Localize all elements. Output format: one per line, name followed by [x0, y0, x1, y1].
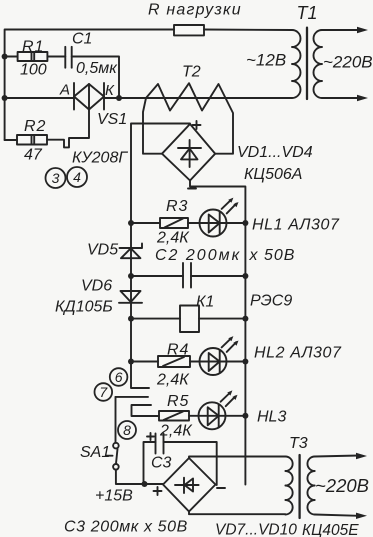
svg-text:2,4К: 2,4К: [156, 230, 190, 247]
svg-text:4: 4: [73, 169, 81, 185]
svg-text:47: 47: [24, 147, 43, 164]
svg-text:КУ208Г: КУ208Г: [72, 150, 128, 167]
svg-text:С2 200мк: С2 200мк: [155, 247, 241, 264]
svg-text:РЭС9: РЭС9: [250, 293, 292, 310]
svg-text:HL1 АЛ307: HL1 АЛ307: [252, 217, 340, 234]
svg-text:HL3: HL3: [257, 409, 286, 426]
svg-text:Т3: Т3: [289, 435, 308, 452]
svg-text:100: 100: [20, 62, 47, 79]
svg-text:R2: R2: [24, 118, 46, 135]
svg-text:R5: R5: [167, 393, 189, 410]
svg-text:А: А: [59, 82, 70, 99]
svg-text:3: 3: [52, 170, 60, 186]
svg-text:К: К: [105, 82, 115, 99]
svg-text:+15В: +15В: [95, 488, 133, 505]
svg-text:VS1: VS1: [97, 111, 127, 128]
svg-text:~12В: ~12В: [246, 51, 286, 70]
svg-text:SA1: SA1: [80, 444, 110, 461]
svg-text:VD7...VD10: VD7...VD10: [215, 522, 297, 537]
svg-text:7: 7: [99, 384, 108, 400]
svg-text:R4: R4: [167, 342, 189, 359]
svg-text:VD5: VD5: [87, 242, 118, 259]
svg-text:С3 200мк x 50В: С3 200мк x 50В: [64, 519, 188, 536]
svg-text:R3: R3: [166, 198, 188, 215]
svg-text:КЦ405Е: КЦ405Е: [302, 522, 359, 537]
svg-text:Т1: Т1: [297, 3, 318, 23]
svg-text:~220В: ~220В: [315, 475, 369, 496]
svg-text:0,5мк: 0,5мк: [76, 60, 118, 77]
svg-text:К1: К1: [196, 294, 214, 311]
svg-text:VD6: VD6: [81, 278, 112, 295]
svg-text:VD1...VD4: VD1...VD4: [237, 144, 313, 161]
svg-text:2,4К: 2,4К: [159, 423, 193, 440]
svg-text:HL2 АЛ307: HL2 АЛ307: [254, 345, 342, 362]
svg-text:x 50В: x 50В: [249, 247, 296, 264]
svg-text:8: 8: [123, 422, 131, 438]
svg-text:2,4К: 2,4К: [156, 372, 190, 389]
svg-text:КД105Б: КД105Б: [55, 299, 113, 316]
svg-text:С3: С3: [151, 455, 172, 472]
svg-text:R нагрузки: R нагрузки: [148, 2, 242, 19]
svg-text:Т2: Т2: [182, 64, 201, 81]
svg-text:6: 6: [115, 369, 123, 385]
svg-text:КЦ506А: КЦ506А: [244, 166, 302, 183]
svg-text:R1: R1: [22, 39, 44, 56]
svg-text:~220В: ~220В: [323, 53, 373, 72]
svg-text:С1: С1: [72, 31, 92, 48]
